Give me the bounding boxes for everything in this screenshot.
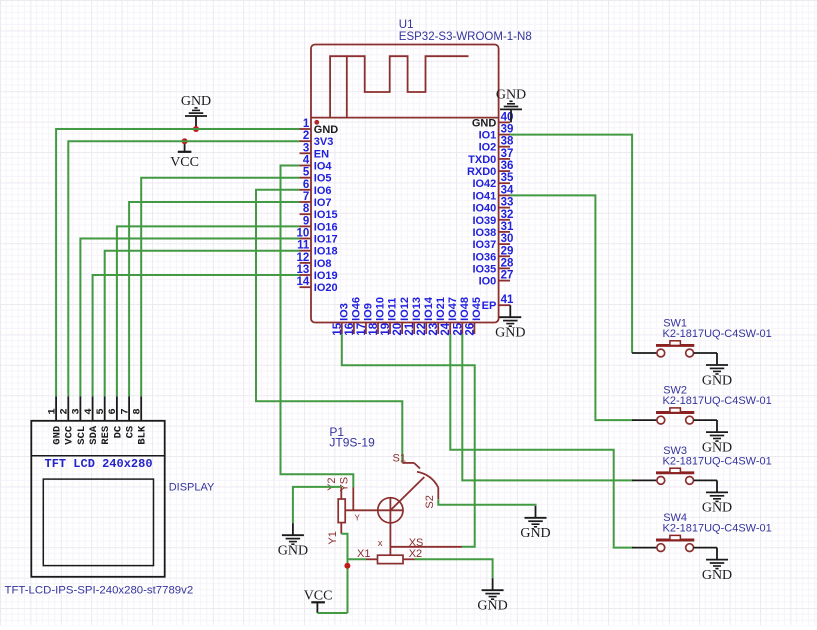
U1 pin 8 (IO15) [300,203,338,221]
joystick YS pin stub [352,487,354,510]
svg-text:7: 7 [119,408,131,414]
svg-text:IO40: IO40 [472,203,496,215]
joystick pin labels [326,453,436,560]
svg-text:X2: X2 [409,548,422,560]
svg-text:19: 19 [380,323,392,336]
svg-text:GND: GND [702,373,732,388]
display pin 2 (VCC) [59,397,76,445]
svg-text:4: 4 [83,408,95,414]
svg-text:GND: GND [520,526,550,541]
svg-text:3: 3 [303,142,309,154]
U1 pin 10 (IO17) [297,228,338,246]
svg-text:2: 2 [303,130,309,142]
U1 pin 29 (IO36) [472,245,513,263]
junction X1/Y1/VCC [344,563,350,569]
U1 ESP32-S3-WROOM-1-N8 body [311,45,499,323]
svg-text:8: 8 [132,408,144,414]
svg-text:TFT-LCD-IPS-SPI-240x280-st7789: TFT-LCD-IPS-SPI-240x280-st7789v2 [5,584,194,596]
wire U1 pin 34 (IO41) to SW2 [510,195,633,420]
U1 pin 21 (IO13) [404,297,423,336]
svg-text:26: 26 [464,323,476,336]
U1 pin 6 (IO6) [300,179,332,197]
display pin 7 (CS) [119,397,136,439]
svg-text:GND: GND [496,87,526,102]
svg-text:36: 36 [501,160,514,172]
svg-text:RXD0: RXD0 [467,166,496,178]
ground (Y2) [278,523,308,558]
wire U1 pin 5 to display pin column x=141.2 [141,178,299,397]
svg-text:5: 5 [303,167,310,179]
svg-text:IO6: IO6 [314,185,332,197]
display screen rectangle [43,479,153,565]
svg-text:16: 16 [344,323,356,336]
U1 pin 11 (IO18) [297,240,338,258]
svg-text:25: 25 [452,322,464,335]
svg-text:GND: GND [702,501,732,516]
joystick ball circle [378,498,403,523]
joystick Y potentiometer body [338,499,345,523]
svg-text:x: x [378,538,383,549]
U1 pin 17 (IO9) [356,303,375,335]
svg-text:IO21: IO21 [435,297,447,321]
svg-text:IO38: IO38 [472,227,496,239]
wire U1 pin 15 (IO3) to joystick XS [342,334,475,547]
svg-text:IO10: IO10 [375,297,387,321]
joystick X1 pin stub [366,558,378,560]
junction on pin1/GND wire [193,126,199,132]
svg-text:K2-1817UQ-C4SW-01: K2-1817UQ-C4SW-01 [663,395,772,407]
svg-text:Y1: Y1 [327,531,339,544]
svg-text:18: 18 [368,322,380,335]
display module TFT-LCD box [31,421,164,577]
U1 pin 2 (3V3) [300,130,334,148]
svg-text:IO7: IO7 [314,197,332,209]
svg-text:ESP32-S3-WROOM-1-N8: ESP32-S3-WROOM-1-N8 [399,31,532,43]
wire VCC to junction [317,612,347,614]
U1 pin 16 (IO46) [344,297,363,336]
U1 pin-1 marker dot [314,120,319,125]
joystick switch lever [390,477,424,510]
svg-text:IO16: IO16 [314,221,338,233]
wire X2 to ground [415,559,493,578]
display pin 3 (SCL) [71,397,88,445]
U1 pin 33 (IO40) [472,197,513,215]
svg-text:2: 2 [59,408,71,414]
svg-text:IO9: IO9 [363,303,375,321]
svg-text:IO48: IO48 [459,297,471,321]
svg-text:IO8: IO8 [314,258,332,270]
svg-text:IO3: IO3 [339,303,351,321]
svg-text:30: 30 [501,233,514,245]
svg-text:9: 9 [303,215,309,227]
U1 pin 36 (RXD0) [467,160,513,178]
wire U1 pin 39 (IO1) to SW1 [510,135,632,353]
wire U1 pin 1 to display pin column x=56.1 [56,129,299,397]
U1 pin 22 (IO14) [416,296,435,335]
joystick ball vertical / X wiper stem [389,498,391,556]
svg-text:IO37: IO37 [472,239,496,251]
ground (SW4) [702,548,732,583]
U1 pin 32 (IO39) [472,209,513,227]
svg-text:IO47: IO47 [447,297,459,321]
svg-text:GND: GND [495,326,525,341]
svg-text:RES: RES [100,426,112,445]
svg-text:VCC: VCC [64,425,76,445]
svg-text:Y: Y [355,514,361,523]
U1 pin 19 (IO11) [380,298,399,336]
svg-text:20: 20 [392,323,404,336]
ground (SW1) [702,353,732,388]
svg-text:32: 32 [501,209,514,221]
svg-text:3V3: 3V3 [314,136,334,148]
power flag VCC (joystick) [304,589,333,614]
svg-text:IO39: IO39 [472,215,496,227]
svg-text:K2-1817UQ-C4SW-01: K2-1817UQ-C4SW-01 [663,328,772,340]
U1 pin 25 (IO48) [452,297,471,336]
U1 pin 40 (GND) [472,111,514,129]
wire U1 pin 13 to display pin column x=92.6 [93,275,300,397]
wire U1 pin 6 to joystick S1 [256,190,402,463]
svg-text:IO46: IO46 [351,297,363,321]
joystick Y1 pin stub [340,523,342,534]
U1 pin 12 (IO8) [297,252,332,270]
joystick XS pin line [390,546,462,548]
ground (SW3) [702,480,732,515]
svg-text:SCL: SCL [76,426,88,445]
svg-text:38: 38 [501,136,514,148]
svg-text:X1: X1 [357,548,370,560]
svg-text:S1: S1 [393,453,406,465]
svg-text:U1: U1 [399,19,414,31]
svg-text:IO2: IO2 [479,142,497,154]
wire U1 pin 2 to display pin column x=68.3 [68,141,299,396]
svg-text:GND: GND [314,124,339,136]
U1 pin 3 (EN) [300,142,330,160]
svg-text:4: 4 [303,155,310,167]
pushbutton SW1 K2-1817UQ-C4SW-01 [632,318,772,357]
svg-text:28: 28 [501,257,514,269]
wire U1 pin 4 to joystick YS [281,166,354,488]
svg-text:CS: CS [125,426,137,439]
svg-text:33: 33 [501,197,514,209]
wire U1 pin 10 to display pin column x=80.4 [80,239,299,397]
wire U1 pin 24 (IO47) to SW4 [450,334,633,548]
U1 pin 27 (IO0) [479,270,514,288]
U1 pin 34 (IO41) [472,184,514,202]
ground (S2) [520,506,550,541]
wire U1 pin 25 (IO48) to SW3 [462,334,633,480]
wire Y1/X1/VCC vertical [341,534,347,613]
U1 pin 41 (EP) [482,294,514,312]
svg-text:23: 23 [428,323,440,336]
svg-text:6: 6 [107,408,119,414]
svg-text:IO36: IO36 [472,251,496,263]
joystick Y2 pin stub [340,487,342,499]
svg-text:IO15: IO15 [314,209,338,221]
svg-text:DC: DC [112,425,124,438]
svg-text:IO14: IO14 [423,296,435,321]
display pin 4 (SDA) [83,397,100,445]
svg-text:24: 24 [440,322,452,335]
U1 pin 13 (IO19) [297,264,338,282]
svg-text:17: 17 [356,323,368,336]
U1 pin 15 (IO3) [332,303,351,335]
svg-text:31: 31 [501,221,514,233]
svg-text:GND: GND [702,568,732,583]
svg-text:GND: GND [472,117,497,129]
svg-text:37: 37 [501,148,514,160]
svg-text:IO13: IO13 [411,297,423,321]
U1 pin 31 (IO38) [472,221,514,239]
svg-text:EP: EP [482,300,497,312]
svg-text:Y2: Y2 [326,477,338,490]
svg-text:IO11: IO11 [387,298,399,321]
svg-text:S2: S2 [424,495,436,508]
ground (pin 40 top) [496,87,526,122]
U1 pin 14 (IO20) [297,276,338,294]
svg-text:29: 29 [501,245,514,257]
svg-text:VCC: VCC [170,155,199,170]
joystick switch arc [417,472,438,488]
display pin 6 (DC) [107,397,124,439]
U1 pin 5 (IO5) [300,167,332,185]
svg-text:41: 41 [501,294,514,306]
U1 pin 28 (IO35) [472,257,514,275]
svg-text:GND: GND [52,426,64,445]
svg-text:1: 1 [303,118,310,130]
joystick Y wiper line [345,509,403,511]
svg-text:DISPLAY: DISPLAY [169,481,215,493]
svg-text:IO18: IO18 [314,246,338,258]
svg-text:YS: YS [339,477,351,492]
U1 pin 35 (IO42) [472,172,514,190]
svg-text:K2-1817UQ-C4SW-01: K2-1817UQ-C4SW-01 [663,523,772,535]
pushbutton SW3 K2-1817UQ-C4SW-01 [632,445,772,484]
wire U1 pin 11 to display pin column x=104.7 [105,251,300,397]
svg-text:21: 21 [404,322,416,335]
svg-text:BLK: BLK [137,425,149,445]
svg-text:35: 35 [501,172,514,184]
display header divider [31,455,164,457]
U1 antenna separator line [311,117,499,119]
power flag VCC (pin 2 net) [170,141,199,170]
svg-text:IO17: IO17 [314,234,338,246]
svg-text:GND: GND [278,544,308,559]
U1 pin 18 (IO10) [368,297,387,336]
svg-text:IO5: IO5 [314,173,332,185]
svg-text:IO1: IO1 [479,130,497,142]
joystick X potentiometer body [378,555,404,563]
ground (SW2) [702,420,732,455]
pushbutton SW4 K2-1817UQ-C4SW-01 [632,512,772,551]
svg-text:TFT LCD 240x280: TFT LCD 240x280 [45,457,153,471]
svg-text:IO12: IO12 [399,297,411,321]
U1 pin 1 (GND) [300,118,339,136]
svg-text:8: 8 [303,203,310,215]
joystick S2 pin stub [437,488,439,500]
wire Y2 to ground [293,487,341,523]
svg-text:15: 15 [332,322,344,335]
U1 pin 20 (IO12) [392,297,411,336]
display pin 5 (RES) [95,397,112,445]
U1 pin 39 (IO1) [479,124,514,142]
ground (pin 1 net) [181,94,211,129]
svg-text:GND: GND [702,440,732,455]
svg-text:12: 12 [297,252,310,264]
svg-text:7: 7 [303,191,309,203]
junction on pin2/VCC wire [182,138,188,144]
svg-text:6: 6 [303,179,309,191]
U1 pin 9 (IO16) [300,215,338,233]
svg-text:5: 5 [95,408,107,414]
svg-text:GND: GND [477,599,507,614]
svg-text:IO0: IO0 [479,276,497,288]
U1 pin 7 (IO7) [300,191,332,209]
svg-text:IO4: IO4 [314,161,333,173]
svg-text:IO35: IO35 [472,263,496,275]
svg-text:EN: EN [314,148,329,160]
svg-text:1: 1 [46,408,58,414]
svg-text:TXD0: TXD0 [468,154,496,166]
svg-text:IO42: IO42 [472,178,496,190]
wire X1 [348,558,367,560]
U1 pin 24 (IO47) [440,297,459,336]
display pin 8 (BLK) [132,397,149,445]
svg-text:IO41: IO41 [472,190,496,202]
svg-text:27: 27 [501,270,514,282]
pushbutton SW2 K2-1817UQ-C4SW-01 [632,385,772,424]
joystick S1 contact [402,463,420,469]
svg-text:22: 22 [416,323,428,336]
U1 pin 37 (TXD0) [468,148,513,166]
ground (EP pin 41) [495,305,525,340]
wire S2 to ground [438,499,535,506]
svg-text:SDA: SDA [88,425,100,445]
U1 pin 38 (IO2) [479,136,514,154]
U1 pin 26 (IO45) [464,297,483,336]
display pin 1 (GND) [46,397,63,445]
ground (X2) [477,578,507,613]
U1 pin 4 (IO4) [300,155,333,173]
svg-text:JT9S-19: JT9S-19 [329,436,375,450]
svg-text:IO19: IO19 [314,270,338,282]
svg-text:IO20: IO20 [314,282,338,294]
svg-text:14: 14 [297,276,310,288]
U1 pin 30 (IO37) [472,233,513,251]
wire U1 pin 7 to display pin column x=129.1 [129,202,299,397]
svg-text:GND: GND [181,94,211,109]
wire U1 pin 9 to display pin column x=116.9 [117,226,300,396]
svg-text:K2-1817UQ-C4SW-01: K2-1817UQ-C4SW-01 [663,455,772,467]
U1 pin 23 (IO21) [428,297,447,336]
U1 antenna meander [330,56,468,117]
svg-text:3: 3 [71,408,83,414]
joystick X2 pin stub [403,558,415,560]
